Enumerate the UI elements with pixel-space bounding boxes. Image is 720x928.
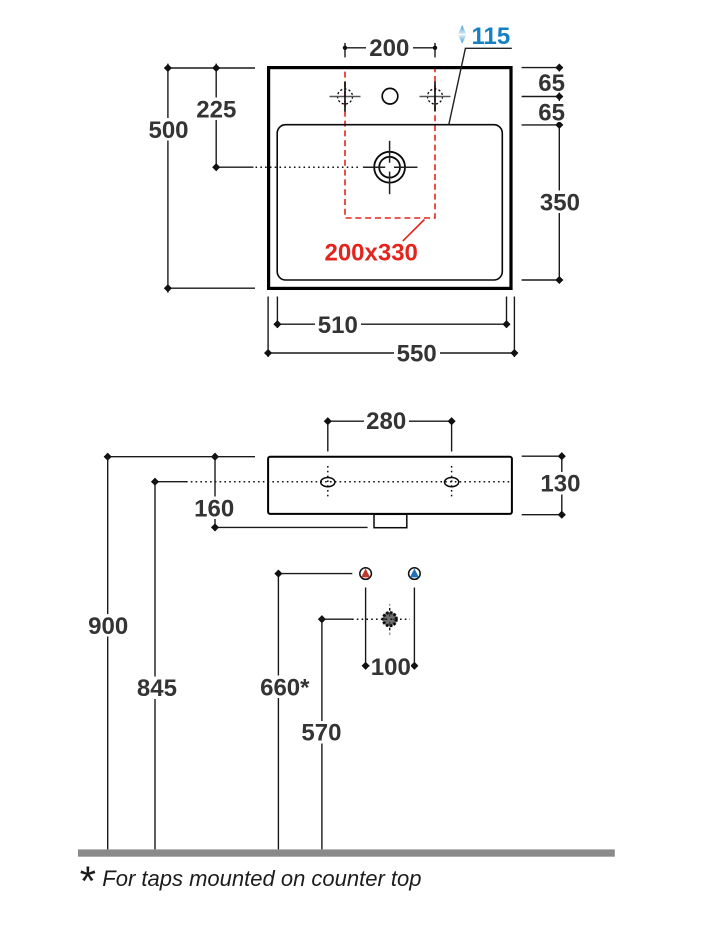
svg-text:130: 130 (540, 471, 580, 498)
svg-text:550: 550 (397, 341, 437, 368)
label 65 upper (538, 72, 567, 93)
red leader line (403, 220, 425, 242)
leader for 115 (449, 48, 512, 124)
svg-text:200: 200 (369, 35, 409, 62)
sink outer rim (269, 68, 511, 289)
height line 900 (107, 453, 109, 849)
overflow hole (382, 88, 398, 104)
svg-text:660*: 660* (260, 674, 310, 701)
tap reference line (275, 573, 352, 575)
svg-text:65: 65 (538, 70, 565, 97)
height line 845 (154, 478, 156, 849)
svg-text:500: 500 (148, 117, 188, 144)
cold tap symbol (409, 568, 421, 580)
drain spigot (374, 514, 407, 527)
svg-text:845: 845 (137, 675, 177, 702)
svg-text:225: 225 (196, 97, 236, 124)
tap hole right (420, 82, 451, 112)
basin inner bowl (277, 125, 502, 280)
tap hole left (side) (321, 478, 335, 487)
tap drop lines (365, 588, 367, 670)
drain inner circle (379, 157, 400, 178)
tap hole right (side) (445, 478, 459, 487)
svg-text:510: 510 (318, 312, 358, 339)
dim 160 (193, 453, 368, 532)
dim 130 (522, 452, 583, 519)
tap hole left (330, 82, 361, 112)
dim 280 (324, 408, 456, 452)
dotted waste centre line (352, 618, 410, 620)
dim 550 (264, 341, 518, 368)
svg-text:200x330: 200x330 (324, 239, 417, 266)
dim 115 depth icon (458, 25, 466, 44)
svg-text:115: 115 (472, 23, 511, 50)
waste outlet symbol (383, 604, 397, 635)
svg-text:For taps mounted on counter to: For taps mounted on counter top (102, 866, 421, 891)
bottom extension lines (267, 297, 269, 358)
dim line 65/65/350 (558, 68, 560, 284)
845 reference line to tap centre (152, 481, 186, 483)
height line 570 (321, 616, 323, 850)
svg-text:100: 100 (371, 654, 411, 681)
floor line (78, 849, 615, 856)
svg-text:350: 350 (540, 190, 580, 217)
side body (268, 457, 512, 514)
svg-text:280: 280 (366, 408, 406, 435)
dim 510 (273, 312, 510, 339)
drain crosshair (363, 141, 418, 194)
dotted tap centre line (186, 481, 511, 483)
label 350 (538, 191, 581, 214)
svg-text:900: 900 (88, 613, 128, 640)
waste centre line (319, 618, 352, 620)
dim 200 (tap spacing) (343, 35, 437, 62)
dotted centre line to drain (256, 166, 362, 168)
hot tap symbol (360, 568, 372, 580)
svg-text:*: * (78, 857, 96, 904)
svg-text:160: 160 (194, 496, 234, 523)
dim 500 left (147, 64, 256, 293)
drain outer circle (374, 152, 405, 183)
svg-text:65: 65 (538, 99, 565, 126)
dim 100 (362, 654, 419, 681)
900 reference line to rim (104, 456, 255, 458)
right side extension lines (522, 67, 563, 69)
label 65 lower (538, 101, 567, 122)
height line 660* (277, 570, 279, 849)
cutout 200x330 red dashed rect (345, 68, 435, 218)
svg-text:570: 570 (301, 720, 341, 747)
dim 225 left (195, 64, 254, 172)
